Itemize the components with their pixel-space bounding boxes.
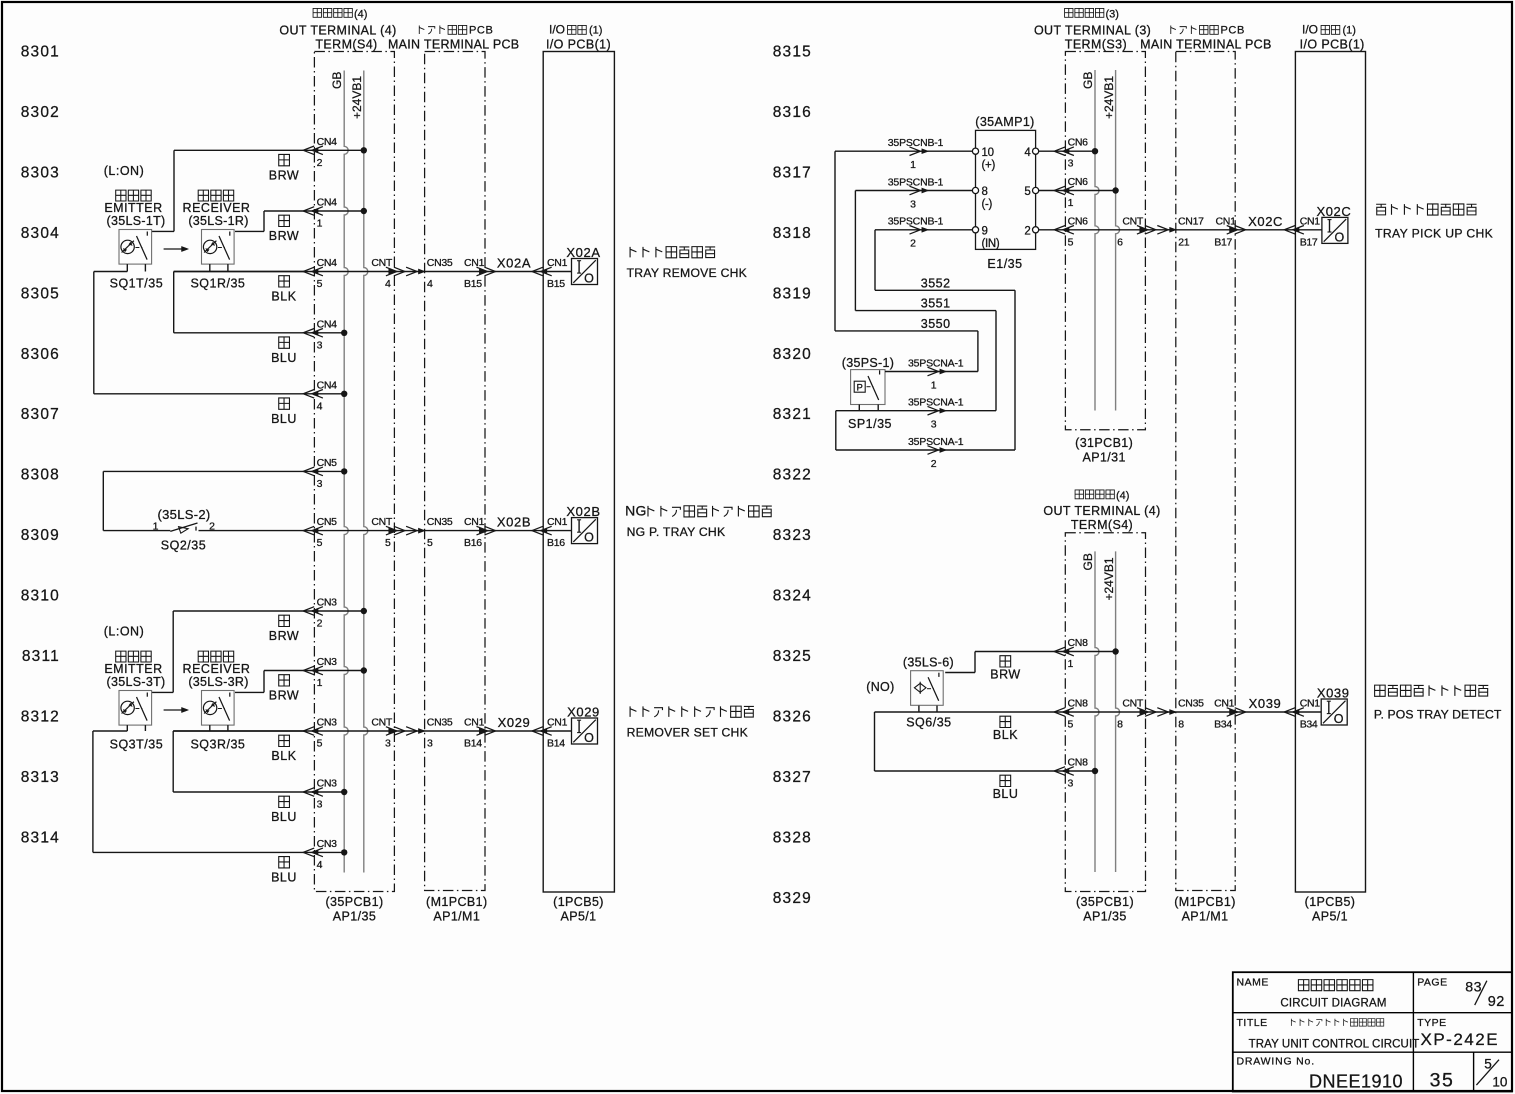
svg-text:AP1/M1: AP1/M1 xyxy=(1182,910,1229,924)
wire pressure switch top pin to net 3550 xyxy=(885,371,978,373)
svg-text:2: 2 xyxy=(1024,226,1030,238)
svg-text:(35PS-1): (35PS-1) xyxy=(842,356,894,370)
svg-text:8319: 8319 xyxy=(773,285,812,302)
svg-text:B16: B16 xyxy=(547,537,565,549)
wire vertical 35PSCNB-1/1 down to net 3550 xyxy=(834,151,836,331)
title block DRAWING No field: DNEE1910 xyxy=(1237,1056,1404,1092)
svg-text:CN4: CN4 xyxy=(317,136,338,148)
wire sensor bottom pins CN8 pin5 BLK signal row xyxy=(918,706,920,712)
bus line +24VB1 right bottom (with hop arcs) xyxy=(1116,551,1120,872)
connector exit arrows CNT 8 xyxy=(1140,710,1146,714)
svg-text:8316: 8316 xyxy=(773,104,812,121)
svg-text:SQ6/35: SQ6/35 xyxy=(906,715,951,729)
svg-text:4: 4 xyxy=(317,400,323,412)
junction dot CN3 pin4 on GB xyxy=(341,849,347,855)
title block sheet fraction 5/10 xyxy=(1476,1057,1507,1090)
junction dot CN3 pin3 on GB xyxy=(341,789,347,795)
svg-text:(M1PCB1): (M1PCB1) xyxy=(1174,895,1236,909)
svg-text:RECEIVER: RECEIVER xyxy=(183,662,251,676)
svg-text:(1PCB5): (1PCB5) xyxy=(1305,895,1356,909)
wire CN4 pin2 BRW to +24VB1 xyxy=(174,149,364,151)
i/o pcb box I/O PCB(1) left xyxy=(543,52,614,893)
svg-text:AP1/M1: AP1/M1 xyxy=(433,910,480,924)
svg-text:SQ2/35: SQ2/35 xyxy=(161,539,206,553)
I/O port symbol X02C xyxy=(1322,217,1348,243)
junction dot CN6 pin1 on +24VB1 xyxy=(1112,187,1118,193)
title block TYPE field: XP-242E xyxy=(1417,1017,1499,1049)
net 3551 wire and label xyxy=(855,310,996,312)
svg-text:8311: 8311 xyxy=(22,648,60,665)
svg-text:1: 1 xyxy=(317,677,323,689)
svg-text:I/O: I/O xyxy=(549,23,565,37)
wire color label BLK row 8305 xyxy=(279,276,290,287)
svg-text:GB: GB xyxy=(1081,553,1095,570)
svg-text:5: 5 xyxy=(317,537,323,549)
wire receiver SQ3R pins row xyxy=(209,725,211,731)
wire 35PSCNB-1 /3 to amplifier xyxy=(855,190,972,192)
svg-text:3: 3 xyxy=(910,198,916,210)
svg-text:(L:ON): (L:ON) xyxy=(104,164,145,178)
svg-text:3: 3 xyxy=(385,738,391,750)
svg-text:(35PCB1): (35PCB1) xyxy=(325,895,383,909)
wire X02A signal row across boxes xyxy=(314,271,394,273)
wire color label BLK row 8326 xyxy=(1000,716,1011,727)
emitter photo sensor 35LS-3T SQ3T/35 xyxy=(104,651,165,751)
svg-text:TITLE: TITLE xyxy=(1237,1017,1268,1029)
svg-text:AP1/31: AP1/31 xyxy=(1082,451,1125,465)
wire CN3 pin3 BLU to GB xyxy=(173,791,344,793)
svg-text:8327: 8327 xyxy=(773,769,812,786)
wire color label BRW row 8304 xyxy=(279,215,290,226)
svg-text:8302: 8302 xyxy=(21,104,60,121)
svg-text:21: 21 xyxy=(1178,236,1190,248)
I/O port symbol X02A xyxy=(572,259,598,285)
svg-text:NG P. TRAY CHK: NG P. TRAY CHK xyxy=(627,525,726,539)
svg-text:8313: 8313 xyxy=(21,769,60,786)
svg-text:1: 1 xyxy=(153,521,159,533)
svg-text:CN8: CN8 xyxy=(1068,757,1089,769)
svg-text:8305: 8305 xyxy=(21,285,60,302)
svg-text:(3): (3) xyxy=(1106,9,1119,21)
connector entry arrow CN8 pin3 xyxy=(1063,769,1069,773)
svg-text:BRW: BRW xyxy=(269,168,299,182)
svg-text:3552: 3552 xyxy=(921,276,951,290)
svg-text:8322: 8322 xyxy=(773,467,812,484)
svg-text:8307: 8307 xyxy=(21,406,60,423)
svg-text:TRAY UNIT CONTROL CIRCUIT: TRAY UNIT CONTROL CIRCUIT xyxy=(1249,1039,1420,1051)
connector entry arrow CN5 pin3 xyxy=(312,469,318,473)
svg-text:GB: GB xyxy=(330,72,344,89)
connector exit arrows at main pcb right edge X02A xyxy=(480,269,486,273)
connector entry arrow CN6 pin1 xyxy=(1063,188,1069,192)
terminal block box TERM(S4) right bottom xyxy=(1065,533,1145,892)
connector entry arrow CN3 pin3 xyxy=(312,790,318,794)
terminal block box TERM(S3) right top xyxy=(1065,52,1145,430)
wire vertical 35PSCNB-1/2 down to net 3552 xyxy=(874,230,876,290)
svg-text:8326: 8326 xyxy=(773,708,812,725)
svg-text:NAME: NAME xyxy=(1237,977,1269,989)
svg-text:8301: 8301 xyxy=(21,44,60,61)
svg-text:(35PCB1): (35PCB1) xyxy=(1076,895,1134,909)
wire CN4 pin5 BLK from receiver xyxy=(174,271,315,273)
svg-text:8328: 8328 xyxy=(773,829,812,846)
header label MAIN TERMINAL PCB left xyxy=(388,25,520,52)
main relay pcb box MAIN TERMINAL PCB left xyxy=(425,52,485,891)
svg-text:CN6: CN6 xyxy=(1068,176,1089,188)
svg-text:O: O xyxy=(584,272,594,286)
function label P. POS TRAY DETECT xyxy=(1375,685,1489,696)
title block NAME field: CIRCUIT DIAGRAM xyxy=(1237,977,1387,1010)
svg-text:O: O xyxy=(1334,712,1344,726)
svg-text:CN35: CN35 xyxy=(427,516,453,528)
wire vertical 35PSCNB-1/3 down to net 3551 xyxy=(854,191,856,311)
svg-text:1: 1 xyxy=(1068,658,1074,670)
svg-text:X039: X039 xyxy=(1317,686,1350,701)
connector exit arrows X02C at main right edge xyxy=(1230,228,1236,232)
wire CN5 pin3 to GB xyxy=(103,470,344,472)
svg-text:35PSCNB-1: 35PSCNB-1 xyxy=(888,176,944,188)
svg-text:P: P xyxy=(857,383,863,394)
svg-text:TERM(S4): TERM(S4) xyxy=(315,38,377,52)
net 3552 wire and label xyxy=(875,289,1015,291)
connector entry arrows X039 at I/O pcb xyxy=(1293,710,1299,714)
svg-text:B17: B17 xyxy=(1214,236,1232,248)
svg-text:X02A: X02A xyxy=(566,245,600,260)
svg-text:35: 35 xyxy=(1430,1070,1455,1092)
svg-text:5: 5 xyxy=(1068,236,1074,248)
wire color label BRW row 8303 xyxy=(279,154,290,165)
receiver photo sensor 35LS-1R SQ1R/35 xyxy=(183,190,251,290)
svg-text:3551: 3551 xyxy=(921,297,951,311)
wire CN4 pin3 BLU to GB xyxy=(174,332,345,334)
connector entry arrow CN6 pin3 xyxy=(1063,149,1069,153)
svg-text:BLK: BLK xyxy=(271,749,296,763)
svg-text:(35LS-3R): (35LS-3R) xyxy=(188,675,248,689)
svg-text:35PSCNB-1: 35PSCNB-1 xyxy=(888,137,944,149)
connector entry arrow CN8 pin1 xyxy=(1063,649,1069,653)
terminal block box TERM(S4) left xyxy=(314,52,394,892)
svg-text:10: 10 xyxy=(982,147,994,159)
connector entry arrow CN8 pin5 xyxy=(1063,710,1069,714)
bus line +24VB1 right top (with hop arcs) xyxy=(1116,70,1120,411)
svg-text:5: 5 xyxy=(1024,186,1030,198)
wire color label BLU row 8314 xyxy=(279,857,290,868)
connector exit arrows at main pcb right edge X02B xyxy=(480,528,486,532)
svg-text:6: 6 xyxy=(1117,236,1123,248)
header label OUT TERMINAL (4) TERM(S4) right xyxy=(1043,490,1160,532)
junction dot CN4 pin1 on +24VB1 xyxy=(361,208,367,214)
wire CN4 pin1 BRW to +24VB1 xyxy=(264,210,364,212)
svg-text:BLU: BLU xyxy=(271,810,297,824)
junction dot CN8 pin1 on +24VB1 xyxy=(1112,648,1118,654)
svg-text:OUT TERMINAL (4): OUT TERMINAL (4) xyxy=(1043,504,1160,518)
svg-text:1: 1 xyxy=(931,379,937,391)
svg-text:8315: 8315 xyxy=(773,44,812,61)
svg-text:5: 5 xyxy=(317,278,323,290)
svg-text:2: 2 xyxy=(910,238,916,250)
svg-text:(35LS-1T): (35LS-1T) xyxy=(107,214,166,228)
connector entry arrow CN3 pin5 xyxy=(312,729,318,733)
svg-text:O: O xyxy=(584,731,594,745)
wire emitter SQ1T pins to nets xyxy=(126,264,128,271)
svg-text:CN5: CN5 xyxy=(317,457,338,469)
svg-text:CN1: CN1 xyxy=(547,516,568,528)
svg-text:B16: B16 xyxy=(464,537,482,549)
wire pressure switch bottom pins to net 3551 xyxy=(858,405,860,411)
svg-text:CN1: CN1 xyxy=(464,516,485,528)
header label OUT TERMINAL (4) TERM(S4) left xyxy=(279,8,396,51)
svg-text:3: 3 xyxy=(317,339,323,351)
svg-text:I/O PCB(1): I/O PCB(1) xyxy=(1300,38,1365,52)
connector entry arrow CN3 pin4 xyxy=(312,850,318,854)
svg-text:4: 4 xyxy=(385,278,391,290)
svg-text:8323: 8323 xyxy=(773,527,812,544)
svg-text:8304: 8304 xyxy=(21,225,60,242)
svg-text:NG: NG xyxy=(625,503,647,519)
junction dot CN3 pin1 on +24VB1 xyxy=(361,667,367,673)
svg-text:1: 1 xyxy=(1068,197,1074,209)
svg-text:CN35: CN35 xyxy=(427,717,453,729)
svg-text:SP1/35: SP1/35 xyxy=(848,417,892,431)
svg-text:BLU: BLU xyxy=(271,351,297,365)
wire CN3 pin4 BLU to GB xyxy=(93,851,344,853)
svg-text:SQ1T/35: SQ1T/35 xyxy=(110,277,164,291)
bus line GB right top (with hop arcs) xyxy=(1095,70,1099,411)
svg-text:(L:ON): (L:ON) xyxy=(104,625,145,639)
function label TRAY REMOVE CHK xyxy=(630,247,715,258)
svg-text:AP1/35: AP1/35 xyxy=(1083,910,1126,924)
wire CN4 pin4 BLU to GB xyxy=(94,393,344,395)
connector entry arrow CN5 pin5 xyxy=(312,528,318,532)
wire CN8 pin3 BLU to GB xyxy=(874,712,876,771)
svg-text:BRW: BRW xyxy=(990,668,1020,682)
connector exit arrows CNT 5 xyxy=(389,528,395,532)
svg-text:CN17: CN17 xyxy=(1178,215,1204,227)
svg-text:REMOVER SET CHK: REMOVER SET CHK xyxy=(627,726,748,740)
svg-text:BLK: BLK xyxy=(271,290,296,304)
svg-text:CN4: CN4 xyxy=(317,197,338,209)
svg-text:1: 1 xyxy=(317,218,323,230)
svg-text:BLK: BLK xyxy=(993,728,1018,742)
svg-text:X029: X029 xyxy=(567,705,600,720)
limit switch SQ2/35 (35LS-2) xyxy=(153,507,216,552)
wire color label BLK row 8312 xyxy=(279,735,290,746)
svg-text:8303: 8303 xyxy=(21,164,60,181)
svg-text:3: 3 xyxy=(317,799,323,811)
svg-text:BLU: BLU xyxy=(993,787,1019,801)
header label I/O PCB(1) left xyxy=(546,23,611,52)
sensor switch arm xyxy=(137,697,148,721)
svg-text:CN35: CN35 xyxy=(427,257,453,269)
svg-text:TERM(S3): TERM(S3) xyxy=(1065,38,1127,52)
svg-text:8314: 8314 xyxy=(21,829,60,846)
svg-text:CN1: CN1 xyxy=(1214,698,1235,710)
svg-text:8321: 8321 xyxy=(773,406,812,423)
svg-text:5: 5 xyxy=(385,537,391,549)
svg-text:CN1: CN1 xyxy=(547,717,568,729)
svg-text:X02C: X02C xyxy=(1248,214,1283,229)
sensor switch arm xyxy=(219,236,230,260)
junction dot CN5 pin3 on GB xyxy=(341,468,347,474)
svg-text:CN1: CN1 xyxy=(547,257,568,269)
svg-text:EMITTER: EMITTER xyxy=(104,662,162,676)
svg-text:+24VB1: +24VB1 xyxy=(350,76,364,119)
svg-text:83: 83 xyxy=(1465,980,1482,996)
svg-text:CN4: CN4 xyxy=(317,318,338,330)
connector entry arrow CN6 pin5 xyxy=(1063,228,1069,232)
svg-text:AP5/1: AP5/1 xyxy=(1312,910,1348,924)
function label TRAY PICK UP CHK xyxy=(1376,204,1476,215)
I/O port symbol X029 xyxy=(572,718,598,744)
pressure switch SP1/35 (35PS-1) xyxy=(842,356,894,431)
wire color label BLU row 8307 xyxy=(279,398,290,409)
svg-text:XP-242E: XP-242E xyxy=(1421,1030,1500,1049)
junction dot CN4 pin4 on GB xyxy=(341,391,347,397)
svg-text:CN6: CN6 xyxy=(1068,137,1089,149)
svg-text:OUT TERMINAL (4): OUT TERMINAL (4) xyxy=(279,24,396,38)
svg-text:CNT: CNT xyxy=(1122,215,1144,227)
svg-text:B14: B14 xyxy=(464,738,482,750)
I/O port symbol X039 xyxy=(1321,699,1347,725)
wire CN5 pin5 through switch SQ2 xyxy=(103,530,170,532)
wire X029 signal row across boxes xyxy=(314,730,394,732)
connector entry arrow CN4 pin2 xyxy=(312,148,318,152)
svg-text:X02B: X02B xyxy=(566,504,600,519)
svg-text:8317: 8317 xyxy=(773,164,812,181)
header label MAIN TERMINAL PCB right xyxy=(1140,25,1272,52)
svg-text:35PSCNA-1: 35PSCNA-1 xyxy=(908,436,964,448)
connector exit arrows X039 at main right edge xyxy=(1230,710,1236,714)
svg-text:CN3: CN3 xyxy=(317,838,338,850)
svg-text:(4): (4) xyxy=(1116,490,1129,502)
title block TITLE field: TRAY UNIT CONTROL CIRCUIT xyxy=(1237,1017,1420,1051)
svg-text:2: 2 xyxy=(317,157,323,169)
header label OUT TERMINAL (3) TERM(S3) xyxy=(1034,8,1151,51)
main relay pcb box MAIN TERMINAL PCB right xyxy=(1176,52,1235,891)
wire color label BRW row 8310 xyxy=(279,615,290,626)
svg-text:E1/35: E1/35 xyxy=(987,257,1022,271)
connector entry arrows at I/O pcb X02B xyxy=(541,528,547,532)
svg-text:CN1: CN1 xyxy=(464,257,485,269)
connector entry arrows X02C at I/O pcb xyxy=(1293,228,1299,232)
svg-text:CN3: CN3 xyxy=(317,597,338,609)
i/o pcb box I/O PCB(1) right xyxy=(1295,52,1365,893)
svg-text:8308: 8308 xyxy=(21,467,60,484)
svg-text:CN8: CN8 xyxy=(1068,698,1089,710)
svg-text:DNEE1910: DNEE1910 xyxy=(1309,1072,1403,1092)
connector entry arrow CN3 pin2 xyxy=(312,609,318,613)
connector entry arrow CN3 pin1 xyxy=(312,668,318,672)
svg-text:2: 2 xyxy=(209,521,215,533)
connector exit arrows at main pcb right edge X029 xyxy=(480,729,486,733)
svg-text:CIRCUIT DIAGRAM: CIRCUIT DIAGRAM xyxy=(1280,998,1386,1010)
svg-text:CN3: CN3 xyxy=(317,717,338,729)
svg-text:CN1: CN1 xyxy=(464,717,485,729)
svg-text:CN1: CN1 xyxy=(1216,215,1237,227)
svg-text:OUT TERMINAL (3): OUT TERMINAL (3) xyxy=(1034,24,1151,38)
svg-text:X039: X039 xyxy=(1249,696,1282,711)
svg-text:5: 5 xyxy=(427,537,433,549)
light beam arrow emitter to receiver xyxy=(164,248,186,250)
svg-text:TRAY PICK UP CHK: TRAY PICK UP CHK xyxy=(1375,226,1493,240)
svg-text:35PSCNB-1: 35PSCNB-1 xyxy=(888,216,944,228)
junction dot CN8 pin3 on GB xyxy=(1092,768,1098,774)
svg-text:9: 9 xyxy=(982,226,988,238)
svg-text:8: 8 xyxy=(1117,719,1123,731)
svg-text:X02B: X02B xyxy=(497,515,531,530)
svg-text:3: 3 xyxy=(1068,778,1074,790)
junction dot CN3 pin2 on +24VB1 xyxy=(361,608,367,614)
emitter photo sensor 35LS-1T SQ1T/35 xyxy=(104,190,165,290)
svg-text:BLU: BLU xyxy=(271,870,297,884)
light beam arrow emitter to receiver xyxy=(164,709,186,711)
svg-text:8318: 8318 xyxy=(773,225,812,242)
svg-text:TRAY REMOVE CHK: TRAY REMOVE CHK xyxy=(627,266,747,280)
connector entry arrow CN4 pin3 xyxy=(312,331,318,335)
svg-text:(35LS-6): (35LS-6) xyxy=(903,656,954,670)
connector exit arrows CNT 6 xyxy=(1140,228,1146,232)
wire color label BLU row 8313 xyxy=(279,796,290,807)
sensor switch arm xyxy=(928,677,939,701)
svg-text:SQ3R/35: SQ3R/35 xyxy=(190,738,245,752)
svg-text:(35LS-1R): (35LS-1R) xyxy=(188,214,248,228)
svg-text:5: 5 xyxy=(317,738,323,750)
svg-text:PCB: PCB xyxy=(469,25,493,37)
wire sensor top pin to CN8 pin1 BRW xyxy=(945,672,975,674)
bus line GB right bottom (with hop arcs) xyxy=(1095,551,1099,872)
connector exit arrows CNT 4 xyxy=(389,269,395,273)
svg-text:(IN): (IN) xyxy=(982,238,1000,250)
svg-text:(1): (1) xyxy=(589,25,602,37)
svg-text:3550: 3550 xyxy=(921,317,951,331)
svg-text:CN6: CN6 xyxy=(1068,215,1089,227)
svg-text:RECEIVER: RECEIVER xyxy=(183,201,251,215)
svg-text:CN4: CN4 xyxy=(317,379,338,391)
svg-text:92: 92 xyxy=(1488,994,1505,1010)
svg-text:8: 8 xyxy=(1178,719,1184,731)
svg-text:BRW: BRW xyxy=(269,229,299,243)
svg-text:B15: B15 xyxy=(464,278,482,290)
svg-text:3: 3 xyxy=(1068,158,1074,170)
amplifier module E1/35 (35AMP1) xyxy=(972,115,1038,271)
svg-text:B34: B34 xyxy=(1214,719,1232,731)
svg-text:4: 4 xyxy=(427,278,433,290)
svg-text:8309: 8309 xyxy=(21,527,60,544)
svg-text:EMITTER: EMITTER xyxy=(104,201,162,215)
junction dot CN6 pin3 on GB xyxy=(1092,148,1098,154)
sensor switch arm xyxy=(219,697,230,721)
svg-text:X029: X029 xyxy=(498,715,531,730)
svg-text:(35AMP1): (35AMP1) xyxy=(975,115,1034,129)
wire receiver SQ1R pins row xyxy=(209,264,211,271)
wire 35PSCNB-1 /2 to amplifier xyxy=(875,229,972,231)
wire CN3 pin1 BRW to +24VB1 xyxy=(264,670,364,672)
wire 35PSCNB-1 /1 to amplifier xyxy=(835,150,972,152)
svg-text:+24VB1: +24VB1 xyxy=(1102,76,1116,119)
svg-text:(1PCB5): (1PCB5) xyxy=(553,895,604,909)
svg-text:CNT: CNT xyxy=(1122,698,1144,710)
svg-text:2: 2 xyxy=(317,618,323,630)
svg-text:CN4: CN4 xyxy=(317,257,338,269)
wire CN3 pin5 BLK from receiver xyxy=(173,730,314,732)
svg-text:DRAWING No.: DRAWING No. xyxy=(1237,1056,1315,1068)
connector entry arrow CN4 pin1 xyxy=(312,209,318,213)
svg-text:(31PCB1): (31PCB1) xyxy=(1075,436,1133,450)
svg-text:3: 3 xyxy=(931,419,937,431)
svg-text:8312: 8312 xyxy=(21,708,60,725)
receiver photo sensor 35LS-3R SQ3R/35 xyxy=(183,651,251,751)
svg-text:CN8: CN8 xyxy=(1068,637,1089,649)
